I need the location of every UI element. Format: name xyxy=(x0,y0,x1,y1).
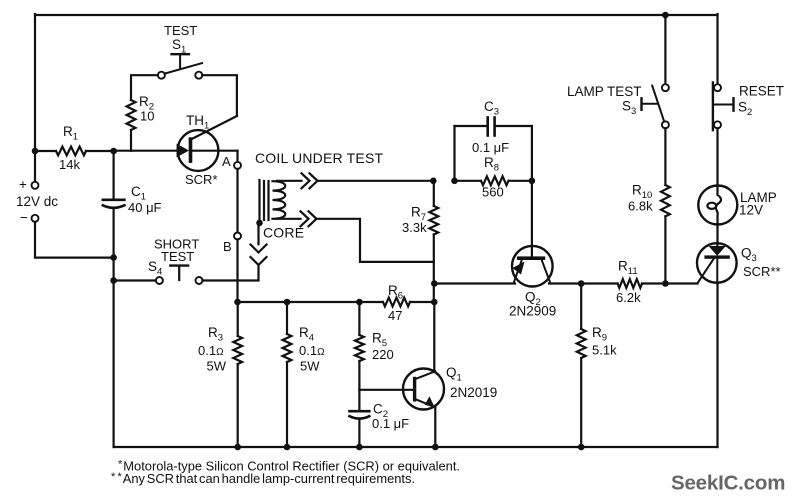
svg-text:0.1 μF: 0.1 μF xyxy=(372,416,409,431)
resistor R5 xyxy=(355,302,394,390)
svg-text:5W: 5W xyxy=(207,359,227,374)
svg-text:+: + xyxy=(19,177,27,192)
svg-text:SCR*: SCR* xyxy=(185,172,218,187)
label + sign xyxy=(19,177,27,192)
node R3 bottom junction xyxy=(234,444,241,451)
svg-text:12V: 12V xyxy=(739,203,763,218)
node C2 bottom junction xyxy=(356,444,363,451)
svg-text:5W: 5W xyxy=(300,359,320,374)
terminal A xyxy=(234,162,241,169)
node top-rail junction xyxy=(662,12,669,19)
wire left rail xyxy=(34,14,36,182)
node R4 top junction xyxy=(284,299,291,306)
svg-text:10: 10 xyxy=(140,109,154,124)
node R1 left junction xyxy=(32,148,39,155)
switch S2 RESET xyxy=(713,82,784,130)
transistor Q1 xyxy=(403,365,497,410)
wire lamp to Q3 xyxy=(716,225,718,245)
resistor R2 xyxy=(127,94,155,151)
footnote 1 xyxy=(118,459,460,474)
wire bottom rail xyxy=(114,446,718,448)
svg-text:0.1 μF: 0.1 μF xyxy=(472,140,509,155)
resistor R7 xyxy=(402,181,438,302)
svg-text:14k: 14k xyxy=(59,157,80,172)
node S4 branch junction xyxy=(110,277,117,284)
wire Q1 collector up xyxy=(433,302,435,372)
svg-text:R3: R3 xyxy=(208,325,223,344)
switch S1 TEST xyxy=(158,23,202,79)
probe arrows to core xyxy=(251,223,267,265)
wire left drop to bottom rail xyxy=(112,258,114,447)
svg-text:RESET: RESET xyxy=(739,84,784,99)
svg-text:2N2019: 2N2019 xyxy=(450,385,497,400)
node C1 bottom junction xyxy=(110,254,117,261)
node R3 top junction xyxy=(234,299,241,306)
svg-text:0.1Ω: 0.1Ω xyxy=(198,343,224,358)
wire TH1 anode to A xyxy=(192,151,238,163)
svg-text:SCR**: SCR** xyxy=(743,264,781,279)
svg-text:CORE: CORE xyxy=(263,225,304,241)
svg-text:2N2909: 2N2909 xyxy=(509,304,556,319)
wire coil bottom lead xyxy=(277,218,301,220)
svg-text:S3: S3 xyxy=(622,99,636,118)
wire coil top lead xyxy=(277,180,302,182)
svg-text:TH1: TH1 xyxy=(186,113,209,132)
wire from - terminal xyxy=(35,222,114,258)
svg-text:12V dc: 12V dc xyxy=(16,194,58,209)
svg-text:5.1k: 5.1k xyxy=(592,343,617,358)
label B xyxy=(223,239,232,254)
wire mid rail left xyxy=(238,301,384,303)
wire to S4 xyxy=(114,279,157,281)
resistor R6 xyxy=(383,283,434,323)
resistor R3 xyxy=(198,302,242,447)
resistor R8 xyxy=(455,155,532,200)
resistor R1 xyxy=(35,124,114,172)
wire top junction to S3 xyxy=(664,15,666,84)
node C3 right junction xyxy=(529,178,536,185)
wire Q1 emitter down xyxy=(434,407,436,447)
svg-text:S1: S1 xyxy=(172,37,186,56)
coil core laminations xyxy=(260,180,269,223)
node R9 bottom junction xyxy=(578,444,585,451)
wire S2 to lamp xyxy=(716,128,718,186)
switch S4 SHORT TEST xyxy=(148,237,203,285)
svg-text:−: − xyxy=(20,210,28,225)
svg-text:S2: S2 xyxy=(738,100,752,119)
svg-text:LAMP TEST: LAMP TEST xyxy=(567,84,642,99)
wire bottom lead to R7 line xyxy=(317,219,434,262)
wire Q3 cathode to bottom rail xyxy=(716,283,718,447)
switch S3 LAMP TEST xyxy=(567,84,669,128)
probe arrows top lead xyxy=(302,173,318,188)
node C3 left junction xyxy=(451,178,458,185)
svg-text:C3: C3 xyxy=(484,99,499,118)
svg-text:R8: R8 xyxy=(484,155,499,174)
svg-text:47: 47 xyxy=(388,308,402,323)
transistor Q2 xyxy=(509,246,556,319)
label - sign xyxy=(20,210,28,225)
wire B to R3 node xyxy=(236,239,238,302)
node R4 bottom junction xyxy=(284,444,291,451)
wire A to B xyxy=(236,169,238,233)
svg-text:3.3k: 3.3k xyxy=(402,220,427,235)
resistor R4 xyxy=(283,302,325,447)
wire to Q2 emitter xyxy=(434,282,515,284)
wire S1 left to R2 top xyxy=(131,75,158,100)
svg-text:* *Any SCR that can handle lam: * *Any SCR that can handle lamp-current … xyxy=(111,471,415,486)
capacitor C3 xyxy=(455,99,532,181)
svg-text:0.1Ω: 0.1Ω xyxy=(299,343,325,358)
thyristor TH1 xyxy=(177,113,237,187)
svg-text:R4: R4 xyxy=(299,325,314,344)
node Q1 emitter bottom junction xyxy=(432,444,439,451)
wire top lead to R7 node xyxy=(318,180,434,182)
node coil lead junction xyxy=(430,178,437,185)
wire S4 to probe xyxy=(202,266,258,281)
terminal + of 12V supply xyxy=(32,182,39,189)
capacitor C2 xyxy=(350,390,410,447)
wire top rail xyxy=(35,14,718,16)
svg-text:Q3: Q3 xyxy=(741,246,757,265)
capacitor C1 xyxy=(103,151,162,258)
wire Q3 gate xyxy=(665,258,714,284)
label CORE xyxy=(263,225,304,241)
probe arrows bottom lead xyxy=(301,211,317,226)
svg-text:A: A xyxy=(222,154,231,169)
svg-text:R9: R9 xyxy=(592,325,607,344)
lamp 12V xyxy=(698,186,776,225)
svg-text:B: B xyxy=(223,239,232,254)
wire Q1 base xyxy=(359,389,413,391)
svg-text:SeekIC.com: SeekIC.com xyxy=(671,472,785,495)
resistor R10 xyxy=(628,128,670,283)
svg-text:TEST: TEST xyxy=(164,23,197,38)
node Q2 emitter wire junction xyxy=(431,280,438,287)
coil winding xyxy=(273,181,286,219)
resistor R9 xyxy=(577,284,617,448)
watermark SeekIC.com xyxy=(671,472,785,495)
svg-text:R1: R1 xyxy=(63,124,78,143)
node R9 top junction xyxy=(578,280,585,287)
SCR Q3 xyxy=(697,243,781,283)
label COIL UNDER TEST xyxy=(255,150,383,166)
label 12V dc xyxy=(16,194,58,209)
svg-text:COIL UNDER TEST: COIL UNDER TEST xyxy=(255,150,383,166)
terminal - of 12V supply xyxy=(32,215,39,222)
node R1 right junction xyxy=(110,148,117,155)
label A xyxy=(222,154,231,169)
svg-text:Q1: Q1 xyxy=(446,365,462,384)
svg-text:6.8k: 6.8k xyxy=(628,199,653,214)
resistor R11 xyxy=(581,259,665,306)
svg-text:560: 560 xyxy=(482,185,504,200)
svg-text:6.2k: 6.2k xyxy=(616,290,641,305)
wire Q2 base xyxy=(531,181,533,257)
wire Q2 collector to R9 node xyxy=(549,282,581,284)
terminal B xyxy=(234,233,241,240)
node core connection xyxy=(256,220,263,227)
svg-text:R11: R11 xyxy=(618,259,638,278)
node R6 right junction xyxy=(431,299,438,306)
svg-text:220: 220 xyxy=(372,347,394,362)
wire R1 junction to TH1 xyxy=(114,150,179,152)
node R10 bottom junction xyxy=(662,280,669,287)
svg-text:TEST: TEST xyxy=(161,249,194,264)
wire S1 to TH1 gate xyxy=(202,75,237,116)
wire right rail top xyxy=(716,14,718,84)
node R5 top junction xyxy=(356,299,363,306)
svg-text:40 μF: 40 μF xyxy=(128,200,162,215)
footnote 2 xyxy=(111,471,415,486)
